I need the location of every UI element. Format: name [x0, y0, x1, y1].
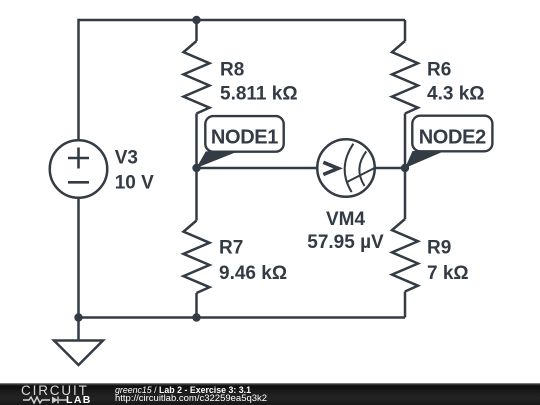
svg-text:9.46 kΩ: 9.46 kΩ [219, 263, 287, 284]
ground [54, 341, 103, 366]
svg-text:7 kΩ: 7 kΩ [427, 263, 469, 284]
node dot NODE2 junction [401, 164, 409, 172]
svg-text:VM4: VM4 [326, 209, 366, 230]
svg-text:R7: R7 [219, 238, 243, 259]
wire right branch upper stub [404, 20, 407, 41]
resistor R7 [184, 221, 210, 294]
wire middle branch upper stub [195, 20, 198, 41]
footer bar [0, 383, 540, 405]
ground stub wire [77, 318, 80, 341]
wire voltmeter left lead [197, 167, 318, 170]
node dot ground junction [74, 313, 82, 321]
wire middle branch lower stub [195, 293, 198, 318]
resistor R8 [184, 41, 210, 114]
svg-text:NODE2: NODE2 [419, 127, 486, 149]
resistor R9 [392, 219, 418, 292]
node NODE1 flag [196, 116, 283, 168]
CircuitLab logo [0, 381, 110, 405]
wire left vertical lower [77, 198, 80, 318]
voltage source V3 [50, 140, 108, 198]
voltmeter VM4 [317, 139, 375, 197]
svg-text:10 V: 10 V [115, 173, 154, 194]
svg-text:LAB: LAB [66, 394, 92, 405]
wire top horizontal [79, 19, 406, 22]
wire bottom horizontal [79, 316, 406, 319]
node dot top junction [192, 16, 200, 24]
svg-text:57.95 µV: 57.95 µV [307, 232, 384, 253]
node NODE2 flag [405, 116, 492, 168]
svg-text:R6: R6 [427, 60, 451, 81]
wire left vertical upper [77, 19, 80, 141]
wire voltmeter right lead [375, 167, 405, 170]
svg-text:NODE1: NODE1 [211, 127, 278, 149]
wire middle branch mid [195, 114, 198, 221]
wire right branch mid [404, 114, 407, 220]
resistor R6 [392, 41, 418, 114]
svg-text:R8: R8 [220, 60, 244, 81]
node dot NODE1 junction [192, 164, 200, 172]
svg-text:4.3 kΩ: 4.3 kΩ [427, 84, 485, 105]
svg-text:R9: R9 [427, 238, 451, 259]
svg-text:5.811 kΩ: 5.811 kΩ [220, 84, 298, 105]
svg-text:V3: V3 [115, 148, 138, 169]
wire right branch lower stub [404, 292, 407, 318]
node dot bottom middle junction [192, 313, 200, 321]
